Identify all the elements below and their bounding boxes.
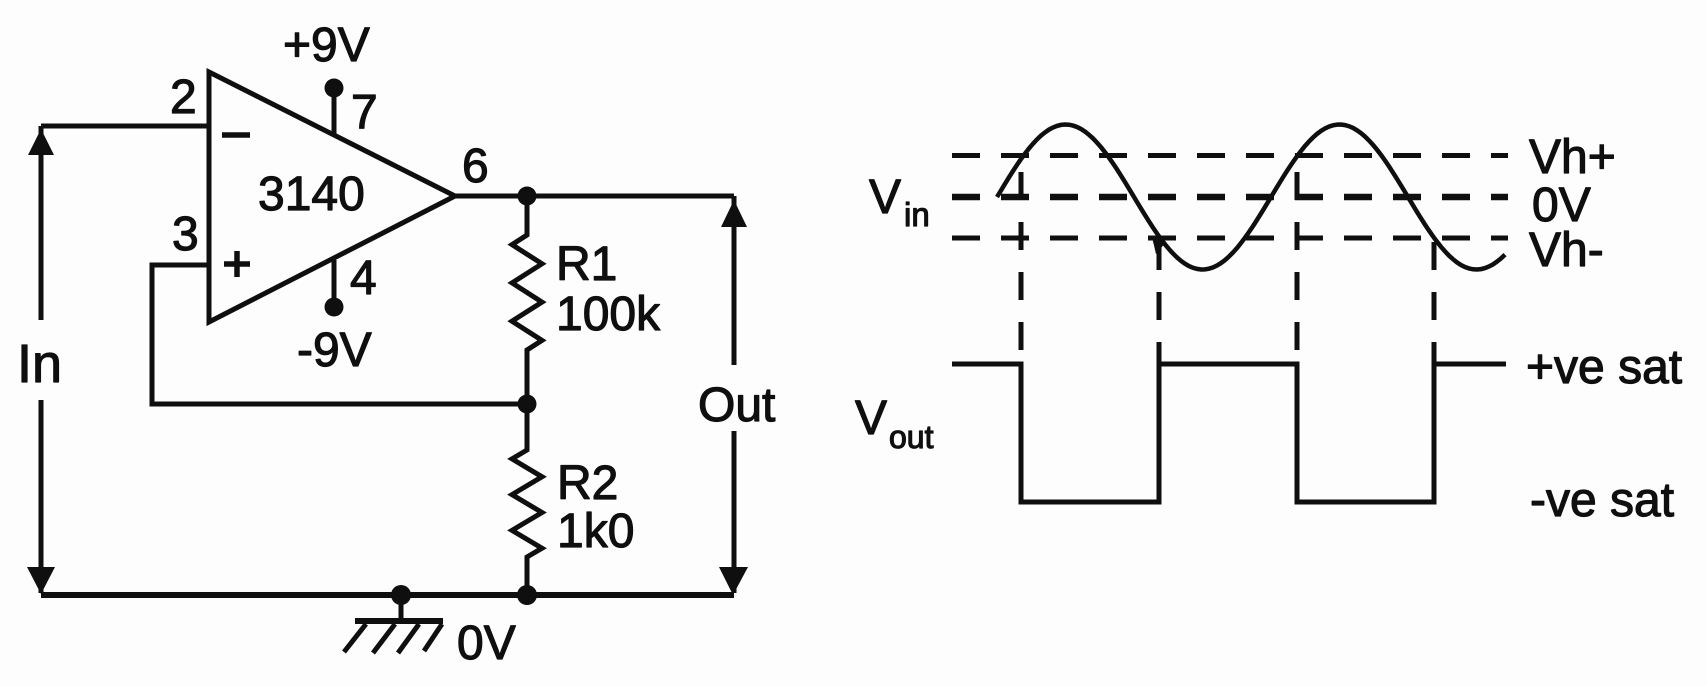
svg-text:Vh-: Vh- — [1529, 224, 1604, 277]
Out arrowhead down — [719, 567, 748, 595]
svg-text:V: V — [855, 392, 887, 445]
resistor R2 — [512, 404, 542, 595]
waveform: vertical dashed timing line 4 — [1432, 242, 1437, 364]
op-amp U1 3140 — [209, 72, 455, 322]
svg-text:+ve sat: +ve sat — [1526, 341, 1682, 394]
waveform: Vh- dashed threshold line — [952, 236, 1508, 241]
node: R2 bottom junction — [517, 585, 537, 605]
svg-text:out: out — [889, 419, 934, 455]
In arrowhead down — [27, 567, 55, 594]
svg-text:Vh+: Vh+ — [1529, 131, 1616, 184]
wire: pin 7 power stub — [332, 88, 337, 134]
wire: feedback path to pin 3 — [152, 265, 527, 404]
node: ground junction — [391, 585, 411, 605]
svg-text:3: 3 — [172, 208, 199, 261]
svg-text:7: 7 — [351, 86, 378, 139]
wire: Out vertical lower segment — [732, 431, 737, 593]
svg-text:3140: 3140 — [258, 168, 365, 221]
svg-text:-ve sat: -ve sat — [1530, 474, 1674, 527]
waveform: Vh+ dashed threshold line — [952, 153, 1508, 158]
op-amp inverting input minus sign — [222, 132, 250, 138]
svg-text:In: In — [17, 334, 62, 394]
svg-text:4: 4 — [350, 252, 377, 305]
svg-text:R1: R1 — [556, 238, 617, 291]
wire: Out vertical upper segment — [732, 196, 737, 365]
wire: In arrow vertical lower segment — [39, 400, 44, 593]
waveform: 0V dashed reference line — [952, 194, 1508, 201]
wire: bottom 0V rail — [41, 592, 734, 598]
wire: pin2 input wire — [41, 124, 209, 129]
waveform: vertical dashed timing line 1 — [1019, 172, 1024, 364]
svg-text:2: 2 — [170, 71, 197, 124]
svg-text:0V: 0V — [457, 617, 516, 670]
power terminal dot -9V — [325, 298, 344, 317]
svg-text:6: 6 — [462, 140, 489, 193]
svg-text:R2: R2 — [557, 457, 618, 510]
waveform: vertical dashed timing line 3 — [1295, 172, 1300, 364]
svg-text:Out: Out — [698, 379, 775, 432]
ground — [399, 595, 404, 621]
power terminal dot +9V — [325, 79, 344, 98]
svg-text:1k0: 1k0 — [557, 505, 634, 558]
waveform: Vout square wave — [952, 364, 1506, 502]
node: feedback junction — [518, 395, 537, 414]
svg-text:V: V — [869, 171, 901, 224]
In arrowhead up — [28, 129, 54, 155]
waveform: small arrow mark on sine at Vh- crossing — [1152, 237, 1166, 254]
wire: In arrow vertical upper segment — [39, 126, 44, 320]
op-amp non-inverting input plus sign — [224, 261, 250, 267]
wire: pin 4 power stub — [332, 260, 337, 307]
Out arrowhead up — [721, 200, 747, 227]
svg-text:-9V: -9V — [297, 324, 372, 377]
waveform: Vin sine wave — [997, 125, 1505, 270]
node: output junction — [518, 187, 537, 206]
svg-text:+9V: +9V — [283, 19, 370, 72]
resistor R1 — [512, 196, 542, 404]
svg-text:100k: 100k — [556, 288, 661, 341]
waveform: vertical dashed timing line 2 — [1157, 242, 1162, 364]
wire: output wire pin 6 — [455, 194, 734, 199]
svg-text:in: in — [904, 196, 930, 233]
